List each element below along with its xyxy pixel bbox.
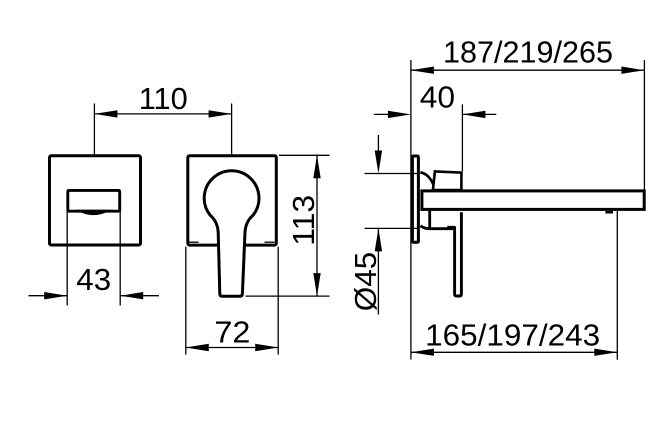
svg-text:165/197/243: 165/197/243 <box>425 317 600 352</box>
dim 113 extension line top <box>279 154 330 156</box>
svg-text:43: 43 <box>76 262 111 297</box>
side view: wall face extension line (full height) <box>410 60 412 360</box>
dim 110 extension line left (plate center) <box>93 104 95 155</box>
side view: body below spout + dome bottom curve <box>420 211 454 229</box>
dim 40 dimension line with outside arrows <box>374 111 497 118</box>
dim 110 label <box>139 81 188 116</box>
svg-text:110: 110 <box>139 81 188 116</box>
side view: aerator nub <box>605 211 613 214</box>
plate seam tick right <box>265 241 275 243</box>
dim 40 label <box>420 80 455 115</box>
dim 113 dimension line with inside arrows <box>313 155 320 296</box>
dim 72 label <box>214 314 250 349</box>
svg-text:Ø45: Ø45 <box>348 252 383 312</box>
dim 43 dimension line with outside arrows <box>29 292 160 299</box>
svg-text:187/219/265: 187/219/265 <box>443 35 613 70</box>
dim 113 label (rotated) <box>286 195 321 246</box>
mixer handle (knob + tapered stem) front view <box>204 171 259 297</box>
side view: lever handle bar <box>455 212 462 296</box>
side view: dome top curve <box>420 172 433 185</box>
dim Ø45 extension line bottom <box>365 227 420 229</box>
plate seam tick left <box>188 241 198 243</box>
dim 187/219/265 extension line right <box>643 60 645 190</box>
dim 187/219/265 dimension line with inside arrows <box>411 67 645 74</box>
side view: spout bar <box>422 191 644 210</box>
spout lip arc <box>76 210 112 215</box>
side view: wall plate <box>412 156 418 242</box>
svg-text:72: 72 <box>214 314 250 349</box>
left escutcheon plate (spout front view) <box>50 156 141 245</box>
dim 43 extension line left <box>66 211 68 305</box>
middle escutcheon plate (mixer front view) <box>188 156 276 245</box>
dim 43 extension line right <box>119 211 121 305</box>
svg-text:40: 40 <box>420 80 455 115</box>
dim 40 extension line right <box>461 104 463 171</box>
dim 72 extension line left <box>185 247 187 355</box>
dim 72 dimension line with inside arrows <box>186 344 278 351</box>
dim 110 extension line right (plate center) <box>231 104 233 155</box>
svg-text:113: 113 <box>286 195 321 246</box>
dim 110 dimension line with inside arrows <box>94 110 231 117</box>
side view: cartridge cover trapezoid <box>433 171 462 190</box>
dim Ø45 label (rotated) <box>348 252 383 312</box>
dim Ø45 extension line top <box>365 173 420 175</box>
dim 165/197/243 extension line right <box>616 211 618 360</box>
dim 187/219/265 label <box>443 35 613 70</box>
dim 165/197/243 label <box>425 317 600 352</box>
dim 43 label <box>76 262 111 297</box>
dim 72 extension line right <box>277 247 279 355</box>
spout opening rectangle <box>68 190 120 211</box>
dim 113 extension line bottom <box>246 295 330 297</box>
dim 165/197/243 dimension line with inside arrows <box>411 349 617 356</box>
dim Ø45 dimension line with outside arrows <box>375 135 382 315</box>
